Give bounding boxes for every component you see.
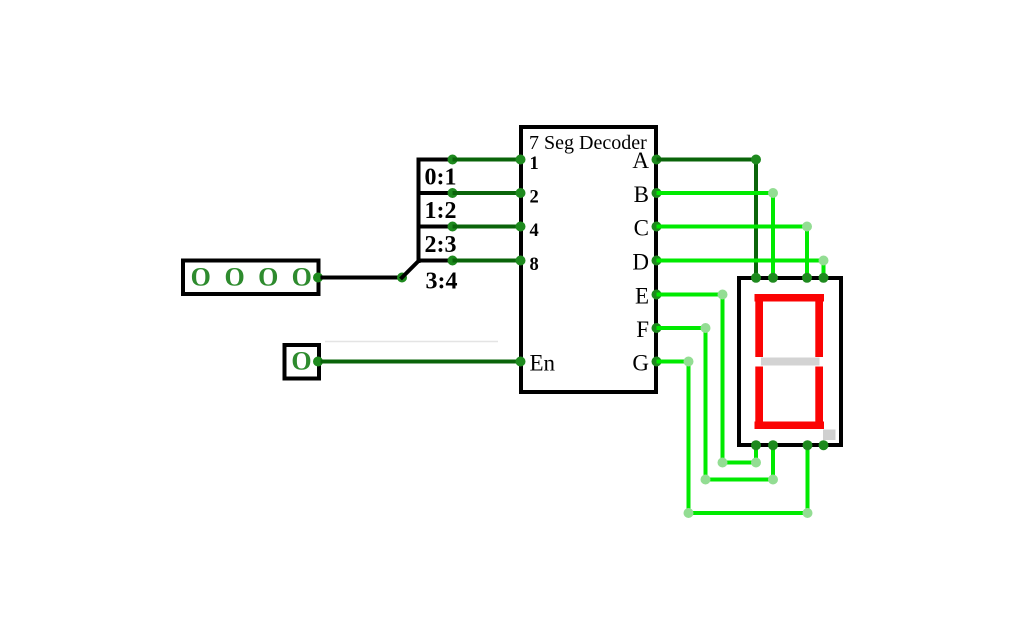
splitter SP1 diagonal bbox=[401, 261, 419, 279]
splitter SP1 stub bit3 bbox=[417, 259, 453, 263]
wire splitter bit2 to decoder pin 4 bbox=[453, 225, 522, 229]
wire B vertical bbox=[771, 193, 775, 278]
node decoder pin F bbox=[652, 323, 662, 333]
segment A lit bbox=[755, 294, 825, 302]
wire D vertical bbox=[822, 261, 826, 278]
wire A horizontal bbox=[657, 158, 757, 162]
wire C vertical bbox=[805, 227, 809, 278]
wire F horizontal bbox=[657, 326, 706, 330]
svg-text:B: B bbox=[634, 182, 649, 207]
input IN1 4-bit pin, value 0000 bbox=[183, 261, 319, 295]
node G corner 2 bbox=[684, 508, 694, 518]
svg-text:O: O bbox=[258, 263, 278, 292]
wire G bottom horizontal bbox=[689, 511, 808, 515]
svg-text:1:2: 1:2 bbox=[425, 198, 457, 224]
svg-text:3:4: 3:4 bbox=[426, 269, 458, 295]
node display pin B top bbox=[768, 273, 778, 283]
segment C lit bbox=[815, 367, 823, 422]
segment F lit bbox=[755, 301, 763, 357]
wire E vertical bbox=[721, 295, 725, 463]
node decoder pin A bbox=[652, 155, 662, 165]
wire F vertical bbox=[704, 328, 708, 480]
svg-text:A: A bbox=[632, 148, 649, 173]
node decoder pin 2 bbox=[516, 188, 526, 198]
node G corner 3 bbox=[803, 508, 813, 518]
decoder U1 7 Seg Decoder bbox=[521, 127, 656, 392]
node decoder pin 4 bbox=[516, 222, 526, 232]
node splitter out bit1 bbox=[448, 188, 458, 198]
node C corner bbox=[802, 222, 812, 232]
svg-text:E: E bbox=[635, 284, 649, 309]
svg-text:1: 1 bbox=[530, 154, 539, 174]
node decoder pin D bbox=[652, 256, 662, 266]
wire IN2 to decoder En bbox=[321, 360, 522, 364]
node decoder pin E bbox=[652, 290, 662, 300]
node splitter out bit0 bbox=[448, 155, 458, 165]
splitter SP1 stub bit0 bbox=[417, 158, 453, 162]
wire E riser bbox=[754, 445, 758, 463]
display DISP1 7-segment box bbox=[739, 278, 841, 445]
node splitter out bit3 bbox=[448, 256, 458, 266]
node decoder pin G bbox=[652, 357, 662, 367]
node E corner 3 bbox=[751, 458, 761, 468]
wire A vertical bbox=[754, 160, 758, 278]
wire D horizontal bbox=[657, 259, 824, 263]
node B corner bbox=[768, 188, 778, 198]
node display pin F bottom bbox=[768, 440, 778, 450]
svg-text:8: 8 bbox=[530, 255, 539, 275]
wire B horizontal bbox=[657, 191, 774, 195]
wire splitter bit3 to decoder pin 8 bbox=[453, 259, 522, 263]
node decoder pin En bbox=[516, 357, 526, 367]
splitter SP1 spine bbox=[417, 158, 421, 264]
svg-text:D: D bbox=[632, 250, 649, 275]
node IN2 output port bbox=[313, 357, 323, 367]
node display pin E bottom bbox=[751, 440, 761, 450]
svg-text:O: O bbox=[224, 263, 244, 292]
wire F bottom horizontal bbox=[706, 478, 774, 482]
node splitter out bit2 bbox=[448, 222, 458, 232]
segment D lit bbox=[755, 422, 825, 430]
node decoder pin 1 bbox=[516, 155, 526, 165]
node decoder pin 8 bbox=[516, 256, 526, 266]
svg-text:O: O bbox=[291, 347, 311, 376]
node decoder pin B bbox=[652, 188, 662, 198]
node display pin dp bottom bbox=[819, 440, 829, 450]
svg-text:2:3: 2:3 bbox=[425, 232, 457, 258]
node A corner bbox=[751, 155, 761, 165]
artifact faint line bbox=[325, 341, 498, 343]
segment E lit bbox=[755, 367, 763, 422]
node F corner 3 bbox=[768, 475, 778, 485]
node bus junction bbox=[397, 273, 407, 283]
svg-text:2: 2 bbox=[530, 188, 539, 208]
wire E bottom horizontal bbox=[723, 461, 757, 465]
node display pin C top bbox=[802, 273, 812, 283]
node G corner 1 bbox=[684, 357, 694, 367]
svg-text:G: G bbox=[632, 351, 649, 376]
svg-text:4: 4 bbox=[530, 221, 539, 241]
svg-text:O: O bbox=[191, 263, 211, 292]
node E corner 2 bbox=[718, 458, 728, 468]
wire G riser bbox=[806, 445, 810, 513]
segment G off bbox=[761, 358, 820, 366]
svg-text:7 Seg Decoder: 7 Seg Decoder bbox=[529, 132, 647, 154]
node decoder pin C bbox=[652, 222, 662, 232]
wire splitter bit0 to decoder pin 1 bbox=[453, 158, 522, 162]
splitter SP1 stub bit2 bbox=[417, 225, 453, 229]
node E corner 1 bbox=[718, 290, 728, 300]
wire G vertical bbox=[687, 362, 691, 514]
wire bus IN1 to splitter bbox=[321, 276, 403, 280]
wire C horizontal bbox=[657, 225, 808, 229]
svg-text:C: C bbox=[634, 216, 649, 241]
segment B lit bbox=[815, 298, 823, 357]
node F corner 2 bbox=[701, 475, 711, 485]
svg-text:En: En bbox=[530, 351, 556, 376]
svg-text:O: O bbox=[292, 263, 312, 292]
wire E horizontal bbox=[657, 293, 723, 297]
splitter SP1 stub bit1 bbox=[417, 191, 453, 195]
wire splitter bit1 to decoder pin 2 bbox=[453, 191, 522, 195]
node IN1 output port bbox=[313, 273, 323, 283]
node display pin A top bbox=[751, 273, 761, 283]
wire F riser bbox=[771, 445, 775, 480]
node F corner 1 bbox=[701, 323, 711, 333]
wire G horizontal bbox=[657, 360, 689, 364]
node D corner bbox=[819, 256, 829, 266]
svg-text:F: F bbox=[636, 317, 649, 342]
node display pin D top bbox=[819, 273, 829, 283]
input IN2 enable pin, value 0 bbox=[285, 345, 320, 379]
svg-text:0:1: 0:1 bbox=[425, 165, 457, 191]
decimal point off bbox=[823, 430, 836, 441]
node display pin G bottom bbox=[803, 440, 813, 450]
